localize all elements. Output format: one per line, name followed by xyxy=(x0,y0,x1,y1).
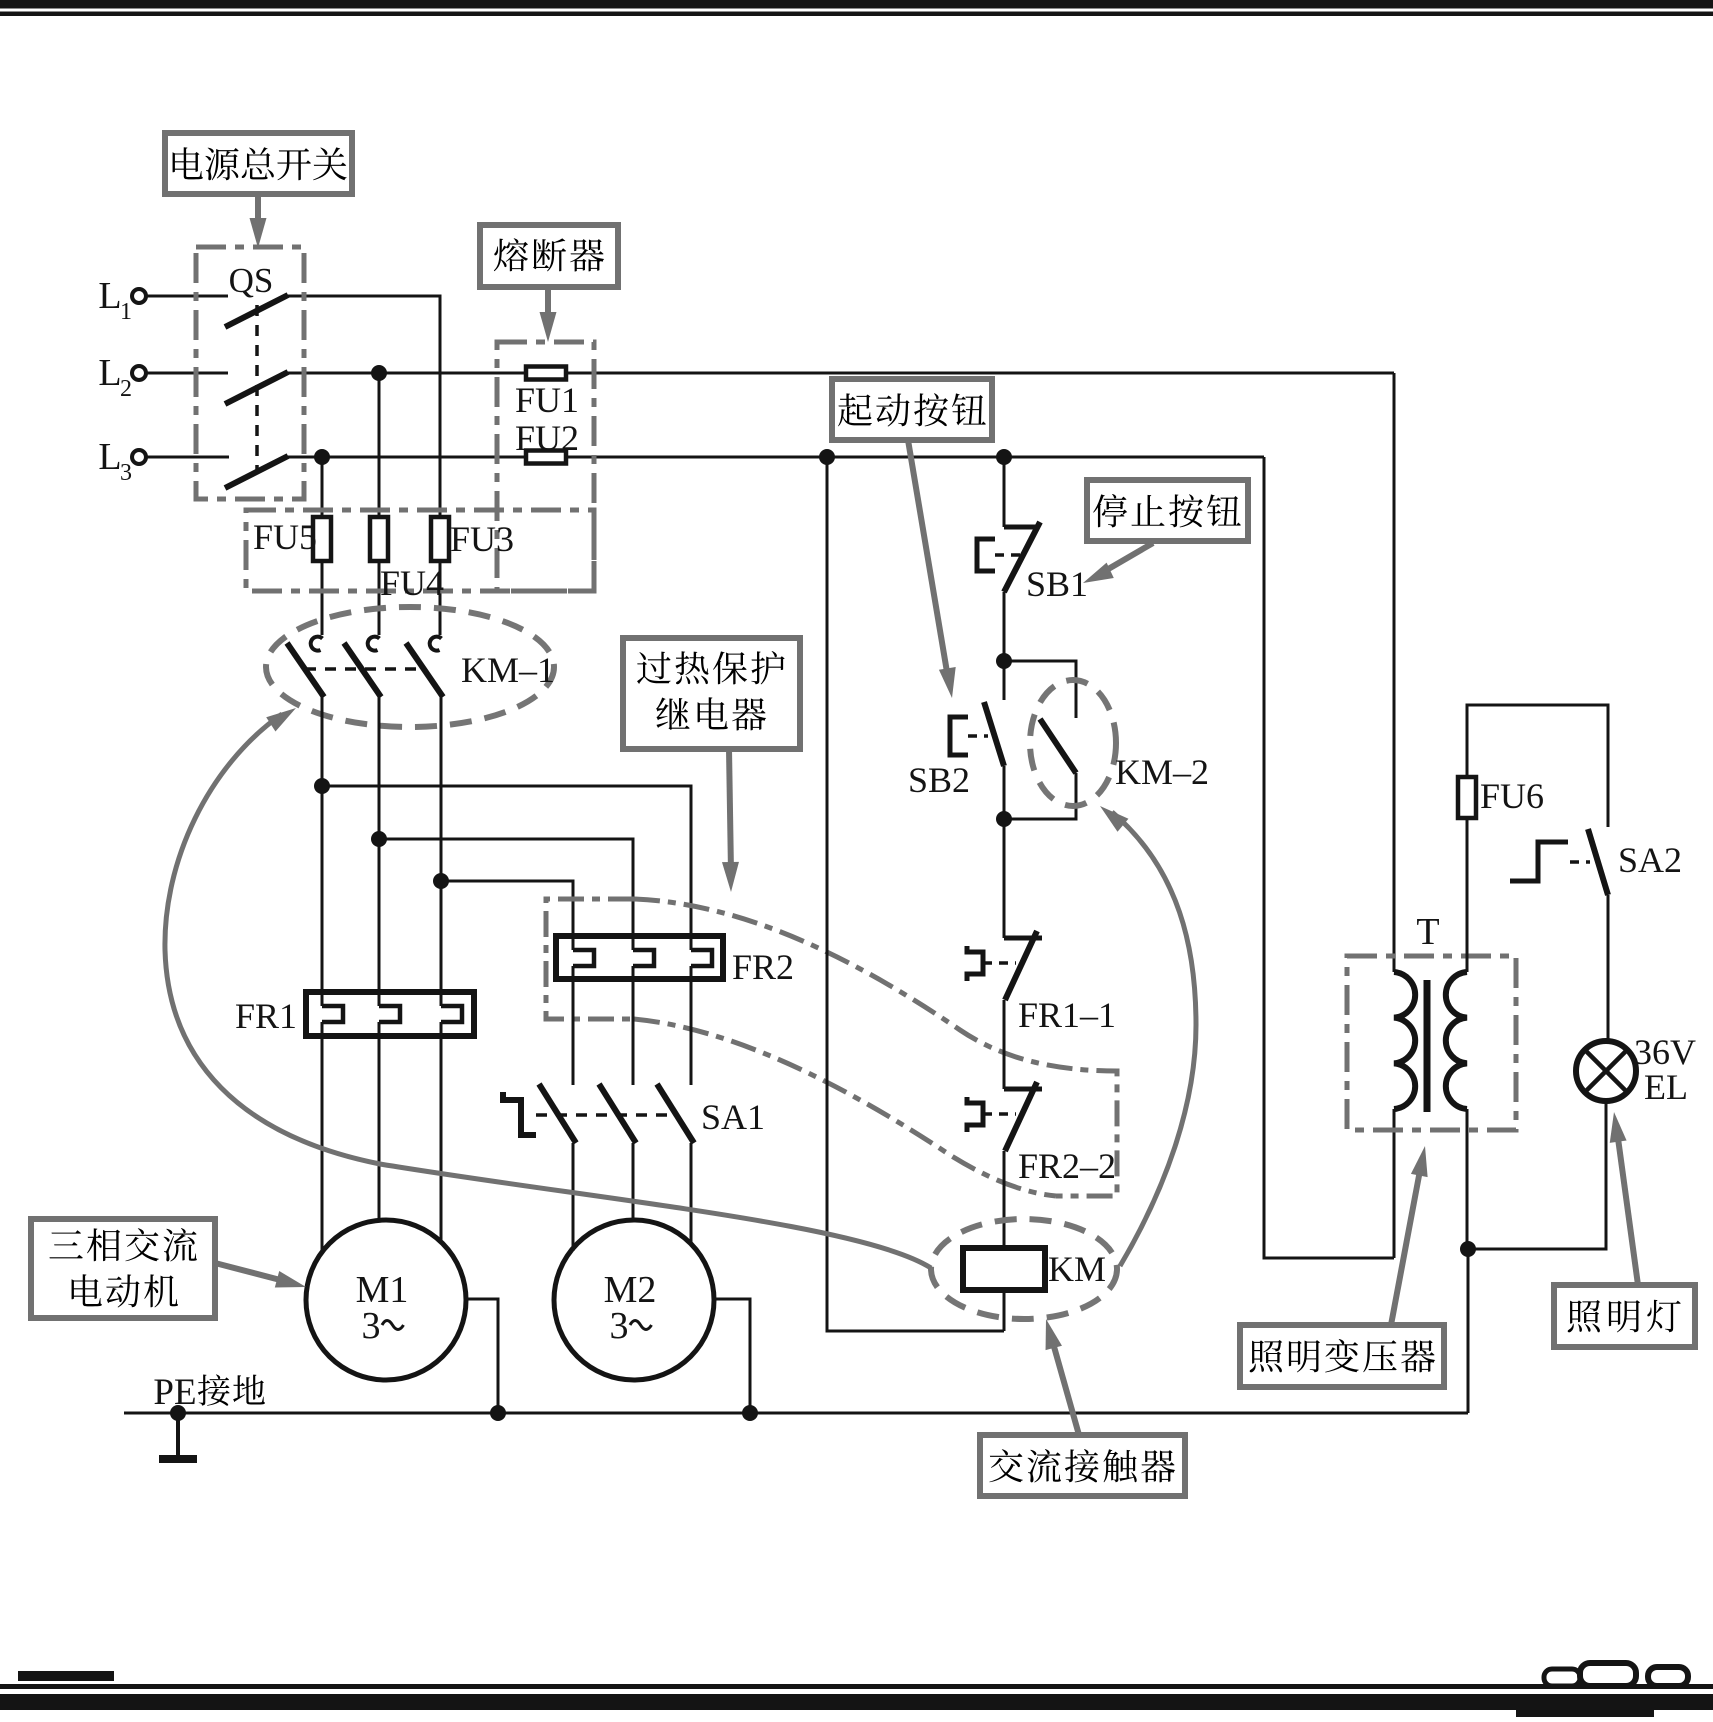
switch SA1 label xyxy=(701,1097,765,1137)
motor M1 xyxy=(306,1220,466,1380)
motor M2 xyxy=(554,1220,714,1380)
switch QS pole 3 blade xyxy=(225,456,288,488)
leader arrow to T xyxy=(1391,1146,1428,1325)
wire phase A below KM-1 xyxy=(321,697,324,1006)
leader arrow to QS xyxy=(250,194,267,248)
svg-text:SB1: SB1 xyxy=(1026,564,1088,604)
svg-text:QS: QS xyxy=(229,261,274,300)
wire FU6 to SA2 xyxy=(1467,705,1608,827)
fuse FU5 xyxy=(253,517,331,561)
fuse FU6 xyxy=(1458,776,1544,818)
leader arrow to EL xyxy=(1610,1112,1638,1285)
wire L2 branch down through FU4 xyxy=(371,365,387,635)
wire KM-2 branch upper xyxy=(1004,661,1076,718)
svg-text:SA1: SA1 xyxy=(701,1097,765,1137)
leader arrow to SB1 xyxy=(1083,543,1153,583)
wire L3 branch down through FU5 xyxy=(314,449,330,635)
wire SB2 to FR1-1 xyxy=(996,766,1012,938)
label box 起动按钮 start button xyxy=(832,379,992,440)
thermal relay FR2 xyxy=(556,936,794,987)
transformer T enclosure xyxy=(1347,956,1516,1130)
switch QS enclosure xyxy=(196,247,304,499)
wire secondary bottom xyxy=(1466,1109,1469,1249)
svg-text:T: T xyxy=(1416,911,1439,953)
svg-text:PE: PE xyxy=(153,1372,196,1413)
pushbutton SB1 (stop, NC) xyxy=(977,522,1088,604)
label box 熔断器 fuse xyxy=(480,225,618,287)
leader curve KM to KM-1 xyxy=(165,708,931,1268)
switch SA1 linkage xyxy=(536,1113,676,1117)
wires FR2 to SA1 xyxy=(573,966,691,1085)
switch SA1 pole 2 xyxy=(599,1084,636,1143)
svg-text:L: L xyxy=(98,275,121,317)
contactor KM-1 enclosure ellipse xyxy=(266,607,554,727)
wire SB1 to junction xyxy=(996,592,1012,700)
wires FR1 to M1 xyxy=(322,1022,441,1251)
wire transformer primary top xyxy=(1393,373,1396,972)
wire M2 earth tap xyxy=(714,1299,750,1413)
fuse FU2 xyxy=(515,418,579,464)
wire phase B below KM-1 xyxy=(378,697,381,1006)
svg-text:1: 1 xyxy=(120,299,132,325)
svg-text:SA2: SA2 xyxy=(1618,840,1682,880)
thermal relay FR1 xyxy=(235,992,474,1036)
svg-text:FU5: FU5 xyxy=(253,517,317,557)
label box 电源总开关 main power switch xyxy=(165,133,352,194)
label box 交流接触器 AC contactor xyxy=(980,1435,1185,1496)
svg-text:SB2: SB2 xyxy=(908,760,970,800)
wire M2 branch tap 2 xyxy=(371,831,633,950)
contactor KM-1 pole 3 xyxy=(406,637,443,697)
FR2 mechanical linkage enclosure (dash-dot) xyxy=(546,899,634,1019)
svg-text:FU2: FU2 xyxy=(515,418,579,458)
svg-text:FU3: FU3 xyxy=(450,519,514,559)
leader arrow to SB2 xyxy=(908,440,956,698)
wire L1 horizontal and drop to FU3 xyxy=(146,296,440,635)
contactor KM enclosure ellipse xyxy=(931,1219,1117,1319)
contactor KM-1 pole 2 xyxy=(344,637,381,697)
wire FR2-2 to KM coil xyxy=(1003,1151,1006,1248)
wire M2 branch tap 1 xyxy=(314,778,691,950)
wire M1 earth tap xyxy=(466,1299,498,1413)
label box 照明灯 lighting lamp xyxy=(1554,1285,1695,1347)
fuse FU4 xyxy=(370,517,444,603)
wire secondary earth drop xyxy=(1467,1249,1470,1413)
svg-text:L: L xyxy=(98,436,121,478)
switch QS label xyxy=(229,261,274,300)
transformer secondary winding xyxy=(1446,972,1467,1109)
svg-text:EL: EL xyxy=(1644,1067,1688,1107)
contactor KM-1 pole 1 xyxy=(287,637,324,697)
label box 三相交流电动机 three-phase AC motor xyxy=(31,1219,215,1318)
wire control right rail xyxy=(1264,457,1394,1258)
contactor KM-2 label xyxy=(1115,752,1209,792)
leader arrow to KM xyxy=(1046,1319,1079,1435)
svg-text:FR1: FR1 xyxy=(235,996,297,1036)
svg-text:36V: 36V xyxy=(1634,1032,1696,1072)
wire secondary top to FU6 xyxy=(1466,818,1469,972)
transformer primary winding xyxy=(1394,972,1415,1109)
contactor coil KM xyxy=(963,1248,1106,1290)
node L1 terminal xyxy=(98,275,146,325)
svg-text:KM–2: KM–2 xyxy=(1115,752,1209,792)
wire SA2 to lamp xyxy=(1607,895,1610,1042)
svg-text:KM: KM xyxy=(1048,1249,1106,1289)
switch SA1 pole 1 xyxy=(539,1084,576,1143)
wires SA1 to M2 xyxy=(573,1143,691,1251)
svg-text:FU6: FU6 xyxy=(1480,776,1544,816)
wire L2 horizontal to transformer corner xyxy=(146,372,1394,375)
svg-text:2: 2 xyxy=(120,376,132,402)
svg-text:FU1: FU1 xyxy=(515,380,579,420)
fuse group FU1/FU2 enclosure xyxy=(497,342,594,591)
wire transformer primary bottom xyxy=(1393,1109,1396,1258)
fuse FU3 xyxy=(431,517,514,561)
node L2 terminal xyxy=(98,352,146,402)
wire SB1 drop xyxy=(996,449,1012,527)
lamp EL xyxy=(1576,1032,1696,1107)
svg-text:KM–1: KM–1 xyxy=(461,650,555,690)
label box 停止按钮 stop button xyxy=(1087,480,1248,541)
auxiliary contact KM-2 xyxy=(1004,719,1076,819)
svg-text:FR2–2: FR2–2 xyxy=(1018,1146,1116,1186)
label box 过热保护继电器 thermal relay xyxy=(623,638,800,749)
thermal contact FR2-2 xyxy=(967,1082,1116,1186)
border bottom xyxy=(0,1663,1713,1717)
svg-text:3: 3 xyxy=(120,460,132,486)
wire lamp bottom xyxy=(1460,1100,1606,1257)
transformer core xyxy=(1424,980,1431,1112)
transformer T label xyxy=(1416,911,1439,953)
leader arrow to M1 xyxy=(215,1263,306,1287)
FR2 linkage curve bottom to FR2-2 xyxy=(634,1019,1056,1196)
wire KM coil to bottom rail xyxy=(1003,1290,1006,1331)
svg-text:L: L xyxy=(98,352,121,394)
fuse FU1 xyxy=(515,367,579,421)
switch QS linkage xyxy=(255,305,259,470)
svg-text:FU4: FU4 xyxy=(380,563,444,603)
wire M2 branch tap 3 xyxy=(433,873,573,950)
ground symbol xyxy=(159,1413,197,1459)
label box 照明变压器 lighting transformer xyxy=(1240,1325,1444,1387)
fuse group FU3/FU4/FU5 enclosure xyxy=(246,510,594,591)
contactor KM-2 enclosure ellipse xyxy=(1030,680,1116,806)
contactor KM-1 linkage xyxy=(305,667,425,671)
switch SA1 pole 3 xyxy=(657,1084,694,1143)
pushbutton SB2 (start, NO) xyxy=(908,702,1004,800)
switch SA1 handle xyxy=(503,1092,536,1135)
svg-text:FR2: FR2 xyxy=(732,947,794,987)
svg-text:3: 3 xyxy=(362,1305,381,1347)
svg-text:3: 3 xyxy=(610,1305,629,1347)
border top xyxy=(0,0,1713,16)
leader arrow to FU1/FU2 xyxy=(540,287,557,342)
switch QS pole 1 blade xyxy=(225,295,288,327)
FR2 linkage curve top to FR2-2 xyxy=(634,899,1117,1196)
PE ground bus xyxy=(124,1405,1468,1421)
switch SA2 xyxy=(1510,829,1682,895)
switch QS pole 2 blade xyxy=(225,372,288,404)
leader curve KM to KM-2 xyxy=(1100,806,1196,1266)
svg-text:FR1–1: FR1–1 xyxy=(1018,995,1116,1035)
wire phase C below KM-1 xyxy=(440,697,443,1006)
contactor KM-1 label xyxy=(461,650,555,690)
wire FR1-1 to FR2-2 xyxy=(1003,1000,1006,1089)
wire control left rail xyxy=(819,449,1004,1331)
thermal contact FR1-1 xyxy=(967,931,1116,1035)
wire L3 horizontal to control rail corner xyxy=(146,456,1264,459)
leader arrow to FR2 xyxy=(722,749,739,892)
node L3 terminal xyxy=(98,436,146,486)
label PE接地 xyxy=(153,1372,264,1413)
